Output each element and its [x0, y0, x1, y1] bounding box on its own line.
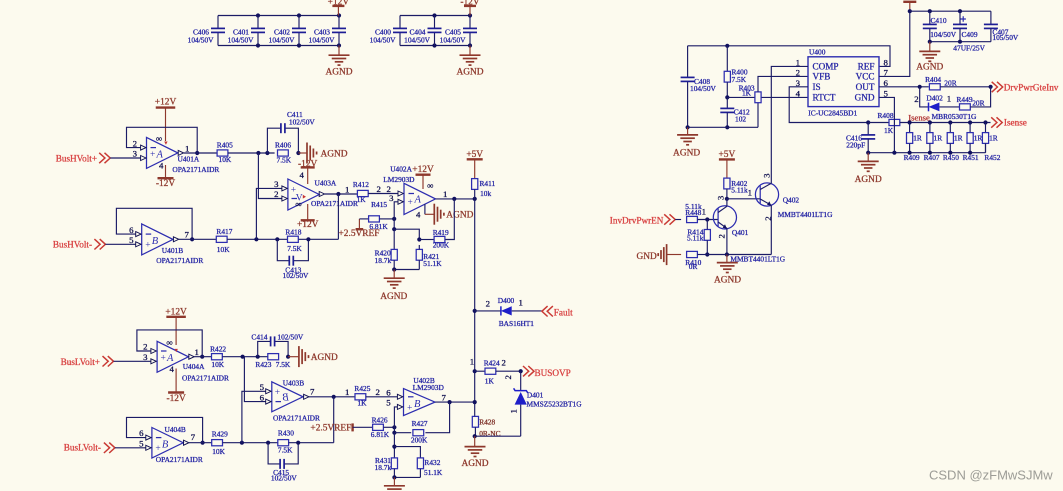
resistor R422 10K [210, 344, 226, 369]
svg-text:Isense: Isense [1004, 118, 1027, 128]
svg-text:∞: ∞ [427, 180, 433, 190]
wire emitter row to Q402 [707, 252, 786, 263]
wire cap bottom rail [928, 40, 991, 44]
wire BusLVolt- to U404B pin5 [115, 447, 146, 449]
resistor R409 1R [904, 123, 922, 163]
svg-text:MMBT4401LT1G: MMBT4401LT1G [778, 210, 833, 219]
svg-text:6: 6 [129, 225, 134, 235]
svg-text:51.1K: 51.1K [424, 468, 443, 477]
svg-text:IS: IS [813, 82, 821, 92]
capacitor C411 102/50V feedback [267, 110, 315, 153]
svg-text:2: 2 [503, 375, 513, 379]
svg-text:4: 4 [416, 209, 421, 219]
ground AGND at U402A V- (rotated) [416, 204, 474, 225]
svg-text:104/50V: 104/50V [188, 36, 215, 45]
svg-text:1K: 1K [485, 377, 495, 386]
svg-text:OPA2171AIDR: OPA2171AIDR [172, 165, 219, 174]
resistor R423 7.5K [255, 354, 291, 370]
svg-text:CSDN @zFMwSJMw: CSDN @zFMwSJMw [929, 468, 1053, 483]
svg-text:B: B [282, 393, 289, 404]
svg-text:3: 3 [133, 149, 138, 159]
svg-text:R449: R449 [957, 95, 973, 104]
svg-text:D400: D400 [498, 296, 515, 305]
capacitor C408 104/50V [681, 46, 717, 128]
svg-text:-12V: -12V [166, 394, 185, 404]
svg-text:R415: R415 [371, 200, 387, 209]
svg-text:R427: R427 [412, 419, 428, 428]
wire U403A output [325, 192, 358, 239]
wire OUT pin6 row [879, 85, 929, 89]
svg-text:18.7k: 18.7k [375, 256, 392, 265]
resistor R403 1K (VFB to ground) [739, 76, 808, 127]
wire U404B feedback loop [127, 417, 205, 444]
wire R412 to U402A pin2 [368, 184, 398, 194]
capacitor C413 102/50V [277, 239, 309, 279]
wire RTCT row (R400 to pin4) [725, 95, 808, 99]
svg-text:R406: R406 [275, 141, 291, 150]
svg-text:200K: 200K [433, 241, 450, 250]
wire node down to R431/R432 [392, 433, 420, 458]
resistor R429 10K [212, 430, 228, 457]
svg-text:6: 6 [386, 387, 391, 397]
svg-text:GND: GND [855, 93, 875, 103]
svg-text:2: 2 [133, 138, 137, 148]
svg-text:OPA2171AIDR: OPA2171AIDR [273, 414, 320, 423]
wire InvDrvPwrEN to R448 [675, 219, 681, 221]
resistor R421 51.1K [416, 245, 442, 270]
wire BusLVolt+ to U404A pin3 [114, 360, 151, 362]
wire U404A feedback loop [137, 330, 204, 359]
op-amp U401A [133, 134, 220, 174]
resistor R406 7.5K [275, 141, 292, 165]
power +12V for U402A [412, 165, 434, 189]
svg-text:+12V: +12V [297, 220, 319, 230]
wire R420/R421 bottoms [392, 267, 419, 271]
svg-text:+: + [145, 241, 150, 251]
svg-text:102: 102 [735, 114, 746, 123]
svg-text:AGND: AGND [855, 175, 882, 185]
resistor R419 200K feedback [419, 199, 454, 250]
resistor R404 20R [925, 75, 993, 90]
op-amp U403A [274, 170, 358, 210]
svg-text:BusLVolt+: BusLVolt+ [61, 357, 100, 367]
port BusHVolt- [53, 239, 106, 250]
svg-text:BusHVolt+: BusHVolt+ [56, 154, 97, 164]
svg-text:7: 7 [310, 387, 315, 397]
resistor R450 1R [943, 123, 963, 163]
power +12V for U401A [155, 98, 177, 141]
capacitor C401 [228, 16, 265, 46]
svg-text:2: 2 [914, 94, 918, 104]
resistor R425 1K [354, 384, 370, 407]
svg-text:Fault: Fault [554, 308, 573, 318]
svg-text:10K: 10K [219, 155, 232, 164]
svg-text:MBR0530T1G: MBR0530T1G [932, 112, 977, 121]
resistor R412 1K [353, 180, 369, 204]
svg-text:5: 5 [386, 398, 391, 408]
resistor R405 10K [217, 140, 233, 164]
wire to U403B pin6 (from R422 node) [244, 357, 265, 402]
svg-text:7.5K: 7.5K [277, 155, 292, 164]
svg-text:LM2903D: LM2903D [413, 383, 445, 392]
svg-text:∞: ∞ [156, 134, 162, 144]
svg-text:-12V: -12V [156, 179, 175, 189]
svg-text:R407: R407 [924, 153, 940, 162]
resistor R427 200K feedback [392, 402, 449, 445]
svg-text:2: 2 [796, 68, 800, 78]
capacitor C409 47UF/25V (polarized) [953, 11, 986, 52]
transistor Q401 MMBT4401LT1G [713, 195, 748, 254]
svg-text:104/50V: 104/50V [228, 36, 255, 45]
svg-text:OPA2171AIDR: OPA2171AIDR [311, 199, 358, 208]
svg-text:4: 4 [159, 160, 164, 170]
svg-text:AGND: AGND [714, 276, 741, 286]
power -12V rail [460, 0, 479, 16]
svg-text:5: 5 [129, 235, 134, 245]
svg-text:3: 3 [274, 179, 279, 189]
wire R418 node to U403A output column [299, 237, 339, 241]
svg-text:R417: R417 [216, 227, 232, 236]
svg-text:3: 3 [389, 193, 394, 203]
svg-text:R404: R404 [925, 75, 941, 84]
svg-text:D402: D402 [926, 94, 943, 103]
ground AGND below C408 [673, 127, 700, 158]
wire R408 to Isense port (sense bus) [900, 120, 991, 124]
svg-text:1: 1 [195, 347, 199, 357]
svg-text:7: 7 [442, 393, 447, 403]
svg-text:+: + [407, 403, 412, 413]
svg-text:RTCT: RTCT [813, 93, 836, 103]
svg-text:2: 2 [716, 234, 726, 238]
svg-text:OPA2171AIDR: OPA2171AIDR [182, 373, 229, 382]
svg-text:1: 1 [947, 93, 951, 103]
resistor R420 18.7k [375, 229, 398, 269]
wire node to R419/R421 branch [392, 219, 421, 242]
svg-text:104/50V: 104/50V [690, 84, 717, 93]
wire U402A output to R411 column [436, 197, 477, 201]
svg-text:1: 1 [519, 298, 523, 308]
svg-text:1R: 1R [913, 134, 922, 143]
resistor R452 1R [982, 123, 1000, 163]
svg-text:1: 1 [345, 387, 349, 397]
port DrvPwrGteInv [992, 82, 1059, 93]
ground AGND below R420 [380, 270, 407, 302]
resistor R408 1K [878, 111, 900, 135]
svg-text:R448: R448 [685, 208, 701, 217]
wire R411 column down to BUSOVP net [473, 189, 477, 416]
svg-text:47UF/25V: 47UF/25V [953, 43, 985, 52]
resistor R417 10K [216, 227, 232, 254]
svg-text:COMP: COMP [813, 62, 839, 72]
power +12V rail top-left [328, 0, 350, 16]
svg-text:102/50V: 102/50V [289, 117, 316, 126]
svg-text:102/50V: 102/50V [271, 473, 298, 482]
svg-text:+: + [155, 444, 160, 454]
capacitor C403 [309, 16, 346, 46]
wire +12V cap rail [910, 9, 991, 13]
wire to U403A pin3 (from R417 node) [256, 188, 282, 239]
wire U403B output and feedback column [309, 387, 355, 443]
wire U404A output to R422 [194, 356, 211, 358]
svg-text:1: 1 [345, 184, 349, 194]
svg-text:+2.5VREF: +2.5VREF [310, 424, 351, 434]
svg-text:7.5K: 7.5K [287, 244, 302, 253]
diode D402 MBR0530T1G [914, 87, 977, 121]
resistor R432 51.1K [417, 458, 443, 478]
svg-text:C410: C410 [931, 16, 947, 25]
svg-text:18.7k: 18.7k [375, 463, 392, 472]
svg-text:104/50V: 104/50V [404, 36, 431, 45]
wire D401 anode to R428 bottom [473, 434, 521, 438]
svg-text:0R: 0R [689, 262, 698, 271]
op-amp U401B [129, 224, 203, 265]
svg-text:Q402: Q402 [783, 195, 800, 204]
diode D400 BAS16HT1 [475, 296, 542, 328]
svg-text:5.11k: 5.11k [687, 233, 704, 242]
wire Q401 collector to Q402 base [727, 198, 760, 200]
port Fault [542, 306, 573, 318]
svg-text:R412: R412 [353, 180, 369, 189]
svg-text:Isense: Isense [908, 112, 930, 122]
wire COMP pin1 down to Q402 collector [771, 66, 808, 184]
power +5V above R402 [719, 150, 736, 178]
svg-text:1R: 1R [974, 134, 983, 143]
svg-text:InvDrvPwrEN: InvDrvPwrEN [610, 215, 664, 225]
svg-text:AGND: AGND [456, 68, 483, 78]
svg-text:BusLVolt-: BusLVolt- [64, 442, 101, 452]
resistor R424 1K [470, 357, 523, 386]
svg-text:3: 3 [761, 173, 771, 178]
svg-text:U400: U400 [809, 48, 826, 57]
svg-text:+12V: +12V [155, 98, 177, 108]
svg-text:102/50V: 102/50V [283, 271, 310, 280]
svg-text:+: + [150, 150, 155, 160]
svg-text:10k: 10k [480, 189, 491, 198]
resistor R426 6.81K [371, 415, 397, 439]
svg-text:REF: REF [858, 62, 875, 72]
svg-text:6: 6 [139, 428, 144, 438]
ground AGND below C410 [916, 42, 943, 73]
wire top bus of C406/C401/C402/C403 bank [218, 13, 341, 47]
svg-text:4: 4 [170, 364, 175, 374]
svg-text:3: 3 [715, 195, 725, 200]
port InvDrvPwrEN [610, 214, 675, 225]
svg-text:1R: 1R [954, 134, 963, 143]
svg-text:1K: 1K [884, 126, 894, 135]
svg-text:D401: D401 [527, 390, 544, 399]
ground AGND below R431 (clipped) [384, 477, 405, 491]
wire R405 to R406 node [228, 151, 275, 155]
svg-text:1: 1 [702, 206, 706, 216]
wire VCC pin7 to +12V rail [879, 9, 912, 76]
svg-text:IC-UC2845BD1: IC-UC2845BD1 [808, 109, 857, 118]
resistor R448 5.11k [685, 202, 718, 223]
svg-text:1K: 1K [357, 195, 367, 204]
svg-text:R422: R422 [210, 344, 226, 353]
power +2.5VREF (top) [339, 219, 380, 239]
svg-text:+: + [161, 354, 166, 364]
wire U401B output to R417 [179, 238, 216, 240]
svg-text:U403A: U403A [315, 179, 337, 188]
svg-text:7.5K: 7.5K [276, 360, 291, 369]
svg-text:104/50V: 104/50V [370, 36, 397, 45]
IC U400 IC-UC2845BD1 [796, 48, 889, 118]
resistor R431 18.7k [375, 456, 398, 477]
wire R431/R432 bottoms [392, 475, 420, 479]
port BusLVolt+ [61, 356, 114, 367]
svg-text:U404A: U404A [183, 362, 205, 371]
wire to U403B pin5 (from R429 node) [242, 391, 266, 442]
capacitor C410 104/50V [923, 11, 957, 42]
svg-text:105/50V: 105/50V [992, 33, 1019, 42]
svg-text:20R: 20R [944, 79, 956, 88]
svg-text:1R: 1R [989, 134, 998, 143]
svg-text:7.5K: 7.5K [278, 445, 293, 454]
svg-text:AGND: AGND [446, 210, 473, 220]
port BusLVolt- [64, 442, 115, 453]
capacitor C406 [188, 16, 225, 46]
svg-text:2: 2 [376, 387, 380, 397]
ground AGND below C403 [325, 46, 352, 78]
svg-text:2: 2 [143, 342, 147, 352]
svg-text:R426: R426 [372, 415, 388, 424]
svg-text:R432: R432 [424, 458, 440, 467]
resistor R400 7.5K [724, 46, 748, 98]
svg-text:4: 4 [796, 89, 801, 99]
svg-text:8: 8 [884, 58, 889, 68]
svg-text:B: B [152, 236, 159, 247]
svg-text:2: 2 [763, 216, 773, 220]
wire top bus of C400/C404/C405 bank [400, 13, 472, 47]
svg-text:R411: R411 [480, 179, 496, 188]
svg-text:104/50V: 104/50V [309, 36, 336, 45]
svg-text:Q401: Q401 [732, 228, 749, 237]
op-amp U404B [139, 425, 203, 464]
svg-text:1: 1 [185, 143, 189, 153]
port BusHVolt+ [56, 153, 110, 164]
svg-text:5: 5 [139, 438, 144, 448]
svg-text:10K: 10K [212, 447, 225, 456]
zener diode D401 MMSZ5232BT1G [503, 371, 582, 436]
svg-text:U401A: U401A [178, 154, 200, 163]
ground AGND right of R406 (rotated) [296, 143, 348, 164]
svg-text:A: A [156, 150, 164, 161]
svg-text:7: 7 [191, 432, 196, 442]
svg-text:MMSZ5232BT1G: MMSZ5232BT1G [527, 400, 583, 409]
svg-text:U403B: U403B [283, 378, 304, 387]
wire U404B output to R429 [189, 442, 212, 444]
svg-text:LM2903D: LM2903D [383, 175, 415, 184]
svg-text:2: 2 [377, 184, 381, 194]
svg-text:R423: R423 [255, 360, 271, 369]
capacitor C412 102 [720, 97, 750, 127]
svg-text:1K: 1K [742, 89, 752, 98]
svg-text:VCC: VCC [856, 72, 875, 82]
wire BusHVolt+ to U401A pin3 [110, 157, 140, 159]
svg-text:GND: GND [636, 252, 657, 262]
comparator U402A LM2903D [383, 165, 447, 215]
capacitor C404 [404, 16, 441, 46]
ground AGND below C405 [456, 46, 483, 78]
svg-text:C414: C414 [251, 332, 267, 341]
resistor R451 1R [963, 123, 983, 163]
svg-text:AGND: AGND [461, 459, 488, 469]
svg-text:+: + [408, 198, 413, 208]
svg-text:4: 4 [300, 170, 305, 180]
resistor R449 20R [957, 87, 991, 110]
svg-text:R408: R408 [878, 111, 894, 120]
svg-text:+: + [275, 388, 280, 398]
power +5V above R411 [466, 150, 483, 179]
svg-text:1: 1 [748, 187, 752, 197]
ground AGND below R428 [461, 436, 488, 469]
svg-text:20R: 20R [972, 99, 984, 108]
power -12V for U403A [298, 159, 317, 184]
svg-text:U404B: U404B [165, 425, 186, 434]
svg-text:10K: 10K [217, 245, 230, 254]
svg-text:1K: 1K [357, 398, 367, 407]
wire GND pin5 down to AGND row [879, 97, 894, 152]
svg-text:5.11k: 5.11k [731, 186, 748, 195]
svg-text:2: 2 [274, 189, 278, 199]
svg-text:R405: R405 [217, 140, 233, 149]
svg-text:A: A [166, 353, 174, 364]
svg-text:AGND: AGND [673, 149, 700, 159]
wire IS node to R408 [866, 112, 930, 124]
svg-text:R428: R428 [479, 418, 495, 427]
svg-text:OPA2171AIDR: OPA2171AIDR [156, 455, 203, 464]
resistor R415 6.81K [359, 200, 388, 231]
ground AGND below Q401 [714, 255, 741, 286]
svg-text:1R: 1R [934, 134, 943, 143]
port BUSOVP [523, 366, 571, 378]
port GND (rotated ground) [636, 244, 666, 265]
svg-text:A: A [414, 194, 422, 205]
svg-text:R425: R425 [354, 384, 370, 393]
power +12V top right [903, 2, 916, 11]
svg-text:6: 6 [260, 393, 265, 403]
wire AGND row under C408/C412 [686, 125, 759, 129]
svg-text:C409: C409 [962, 30, 978, 39]
capacitor C415 102/50V [268, 443, 298, 483]
power +12V for U404A [165, 307, 187, 345]
resistor R430 7.5K [278, 429, 294, 455]
svg-text:200K: 200K [411, 436, 428, 445]
svg-text:R430: R430 [278, 429, 294, 438]
svg-text:102/50V: 102/50V [277, 332, 304, 341]
svg-text:5: 5 [260, 382, 265, 392]
svg-text:U401B: U401B [162, 246, 183, 255]
capacitor C405 [440, 16, 477, 46]
svg-text:AGND: AGND [916, 63, 943, 73]
wire AGND bottom row (sense) [866, 143, 985, 154]
svg-text:∞: ∞ [167, 337, 173, 347]
svg-text:10K: 10K [211, 360, 224, 369]
svg-text:B: B [414, 399, 421, 410]
wire R417 to R418 node [227, 237, 287, 241]
svg-text:220pF: 220pF [846, 140, 865, 149]
capacitor C407 105/50V [984, 11, 1019, 42]
wire GND to R410 [667, 254, 682, 256]
power +2.5VREF (bottom) [310, 423, 372, 433]
svg-text:U402A: U402A [390, 165, 412, 174]
svg-text:OUT: OUT [856, 82, 875, 92]
resistor R407 1R [924, 123, 943, 163]
svg-text:6.81K: 6.81K [371, 430, 390, 439]
capacitor C402 [269, 16, 306, 46]
wire IS pin3 to current sense node [789, 87, 868, 123]
wire U402B output [435, 400, 477, 404]
